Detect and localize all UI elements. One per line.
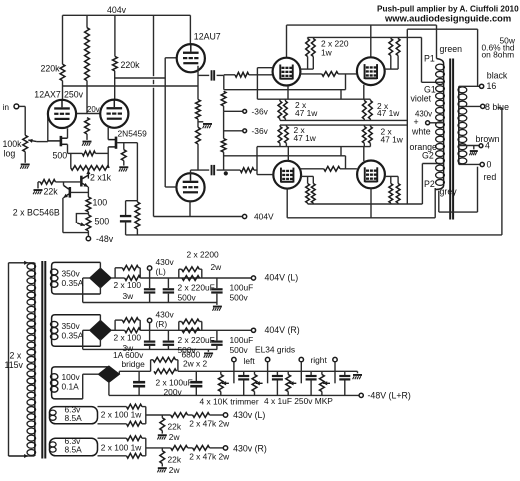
svg-text:22k: 22k	[168, 455, 182, 465]
svg-text:-48v: -48v	[96, 234, 114, 244]
svg-text:www.audiodesignguide.com: www.audiodesignguide.com	[384, 13, 511, 24]
svg-text:4 x 10K trimmer: 4 x 10K trimmer	[200, 397, 259, 407]
svg-text:2 x 100uF: 2 x 100uF	[156, 377, 193, 387]
svg-text:3w: 3w	[123, 291, 135, 301]
svg-text:350v: 350v	[62, 321, 81, 331]
svg-text:8 blue: 8 blue	[485, 102, 509, 112]
svg-text:100uF: 100uF	[230, 335, 254, 345]
svg-text:250v: 250v	[64, 89, 84, 99]
svg-text:P1: P1	[424, 54, 435, 64]
svg-text:2 x 100 1w: 2 x 100 1w	[101, 409, 142, 419]
svg-text:47 1w: 47 1w	[377, 108, 400, 118]
svg-text:12AX7: 12AX7	[34, 89, 61, 99]
svg-text:left: left	[244, 356, 256, 366]
svg-text:violet: violet	[411, 94, 432, 104]
svg-text:P2: P2	[424, 179, 435, 189]
svg-text:right: right	[311, 355, 328, 365]
svg-text:404v: 404v	[107, 5, 127, 15]
svg-text:47 1w: 47 1w	[294, 133, 317, 143]
svg-text:100uF: 100uF	[230, 283, 254, 293]
svg-text:500v: 500v	[230, 345, 249, 355]
svg-text:20v: 20v	[87, 105, 100, 114]
svg-text:green: green	[440, 44, 463, 54]
svg-text:2 x1k: 2 x1k	[90, 173, 112, 183]
svg-text:350v: 350v	[62, 269, 81, 279]
svg-text:12AU7: 12AU7	[194, 31, 221, 41]
svg-text:on 8ohm: on 8ohm	[482, 50, 515, 60]
svg-text:4 x 1uF 250v MKP: 4 x 1uF 250v MKP	[264, 396, 333, 406]
svg-text:500: 500	[53, 151, 68, 161]
svg-text:430v: 430v	[156, 309, 175, 319]
svg-text:404V (R): 404V (R)	[265, 325, 300, 335]
svg-text:0.35A: 0.35A	[62, 278, 84, 288]
svg-text:430v (L): 430v (L)	[233, 410, 265, 420]
svg-text:+: +	[414, 117, 419, 127]
svg-text:200v: 200v	[164, 387, 183, 397]
svg-text:2w: 2w	[169, 432, 181, 442]
svg-text:(L): (L)	[156, 267, 166, 277]
svg-text:8.5A: 8.5A	[65, 413, 83, 423]
svg-text:2N5459: 2N5459	[118, 129, 148, 139]
svg-text:log: log	[4, 149, 16, 159]
svg-text:8.5A: 8.5A	[65, 444, 83, 454]
svg-text:-36v: -36v	[252, 107, 269, 117]
svg-text:47 1w: 47 1w	[381, 135, 404, 145]
svg-text:2w: 2w	[211, 262, 223, 272]
svg-text:22k: 22k	[168, 421, 182, 431]
svg-text:100: 100	[93, 198, 108, 208]
svg-text:0.35A: 0.35A	[62, 330, 84, 340]
svg-text:2 x: 2 x	[10, 351, 22, 361]
svg-text:47 1w: 47 1w	[295, 108, 318, 118]
svg-text:-36v: -36v	[252, 126, 269, 136]
svg-text:2 x BC546B: 2 x BC546B	[13, 207, 60, 217]
svg-text:2 x 220uF: 2 x 220uF	[178, 335, 215, 345]
svg-text:1w: 1w	[321, 48, 333, 58]
svg-text:500: 500	[95, 217, 110, 227]
svg-text:2w x 2: 2w x 2	[183, 359, 208, 369]
svg-text:0.1A: 0.1A	[62, 382, 80, 392]
svg-text:115v: 115v	[5, 360, 24, 370]
svg-text:430v: 430v	[156, 257, 175, 267]
svg-text:2 x 100: 2 x 100	[114, 280, 142, 290]
svg-text:100v: 100v	[62, 372, 81, 382]
svg-text:red: red	[484, 172, 497, 182]
svg-text:404V: 404V	[254, 212, 274, 222]
svg-text:in: in	[3, 102, 10, 112]
svg-text:black: black	[487, 71, 508, 81]
svg-text:2 x 47k 2w: 2 x 47k 2w	[189, 418, 230, 428]
svg-text:2 x 100 1w: 2 x 100 1w	[101, 442, 142, 452]
svg-text:500v: 500v	[178, 293, 197, 303]
svg-text:22k: 22k	[44, 187, 59, 197]
svg-text:2 x 220uF: 2 x 220uF	[178, 283, 215, 293]
svg-text:-48V (L+R): -48V (L+R)	[368, 391, 411, 401]
svg-text:16: 16	[487, 81, 497, 91]
svg-text:2 x 100: 2 x 100	[114, 332, 142, 342]
svg-text:EL34 grids: EL34 grids	[255, 345, 295, 355]
svg-text:500v: 500v	[230, 293, 249, 303]
svg-text:220k: 220k	[41, 64, 61, 74]
svg-text:G2: G2	[422, 151, 434, 161]
svg-text:bridge: bridge	[122, 359, 146, 369]
svg-text:220k: 220k	[121, 60, 141, 70]
svg-text:grey: grey	[440, 187, 458, 197]
svg-text:2w: 2w	[169, 465, 181, 475]
svg-text:whte: whte	[411, 127, 431, 137]
svg-text:404V (L): 404V (L)	[265, 273, 299, 283]
svg-text:0: 0	[487, 159, 492, 169]
svg-text:2 x 47k 2w: 2 x 47k 2w	[189, 452, 230, 462]
svg-text:(R): (R)	[156, 319, 168, 329]
svg-text:4: 4	[485, 141, 490, 151]
svg-text:2 x 2200: 2 x 2200	[187, 250, 219, 260]
svg-text:100k: 100k	[3, 139, 23, 149]
svg-text:430v (R): 430v (R)	[233, 443, 267, 453]
